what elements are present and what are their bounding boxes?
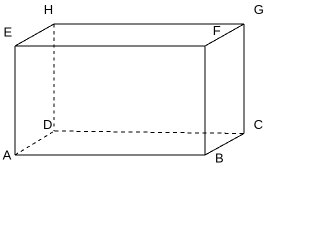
- edge DC hidden (back bottom, dashed): [55, 131, 245, 134]
- edge GC (back right): [243, 24, 245, 134]
- edge EA (front left): [14, 46, 16, 155]
- svg-text:E: E: [4, 25, 13, 40]
- svg-text:A: A: [3, 148, 12, 163]
- svg-text:F: F: [213, 23, 221, 38]
- edge AB (front bottom): [15, 154, 205, 156]
- svg-text:C: C: [254, 117, 263, 132]
- svg-text:D: D: [43, 117, 52, 132]
- svg-text:H: H: [44, 2, 53, 17]
- edge EF (front top): [15, 45, 205, 47]
- edge BC (bottom right depth): [205, 134, 244, 156]
- edge FB (front right): [204, 46, 206, 155]
- edge FG (top right depth): [205, 24, 244, 46]
- edge DA hidden (bottom left depth, dashed): [15, 131, 55, 155]
- svg-text:G: G: [254, 2, 264, 17]
- edge HD hidden (back left, dashed): [53, 25, 55, 132]
- svg-text:B: B: [215, 150, 224, 165]
- edge EH (top left depth): [15, 24, 54, 46]
- edge HG (back top): [54, 23, 244, 25]
